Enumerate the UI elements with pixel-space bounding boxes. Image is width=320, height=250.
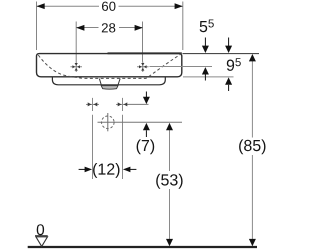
tap hole crosshair right	[137, 62, 149, 72]
dim 9.5 down arrow 2	[228, 38, 230, 47]
drain centre vertical line	[107, 113, 109, 131]
floor line	[28, 246, 257, 248]
dim 28 extension line right	[142, 22, 144, 62]
datum 0 underline	[35, 235, 48, 237]
fixing hole crosshair right	[116, 103, 129, 105]
dim 85 up arrow	[249, 54, 256, 61]
dim 12 arrow left	[79, 168, 85, 170]
tap centre extension line	[150, 66, 213, 68]
fixing hole extension line right (down to dim 12)	[122, 98, 124, 111]
label (7)	[137, 139, 155, 154]
drain dashed circle	[102, 116, 115, 129]
dim 5.5 up arrow	[202, 67, 209, 74]
dim 9.5 up arrow	[225, 77, 232, 84]
dim 28 arrow right	[135, 25, 143, 31]
fixing hole extension line left (down to dim 12)	[92, 98, 94, 111]
dim 12 arrow right	[123, 167, 130, 173]
dim 53 down arrow	[166, 239, 173, 246]
dim 60 label	[102, 2, 116, 11]
drain centre line	[98, 121, 183, 123]
dim 53 up arrow	[166, 123, 173, 130]
basin rim extension line right	[183, 53, 260, 55]
dim 60 extension line left	[36, 2, 38, 51]
basin outline	[37, 54, 182, 77]
label (12)	[93, 163, 119, 178]
dim 28 line	[76, 27, 98, 29]
label (53)	[156, 174, 182, 189]
basin bottom extension line	[183, 76, 234, 78]
datum 0 triangle	[36, 237, 48, 247]
dim 28 extension line left	[75, 22, 77, 62]
dim 7 down arrow	[145, 92, 147, 99]
tap hole crosshair left	[70, 62, 82, 72]
under-bowl outline	[52, 77, 165, 85]
datum 0 label	[37, 224, 44, 235]
dim 60 line	[37, 5, 100, 7]
dim 60 arrow right	[175, 3, 183, 9]
drain boss right dip	[118, 79, 121, 86]
label 5.5	[200, 20, 214, 33]
drain boss left dip	[99, 79, 101, 86]
dim 28 label	[102, 23, 116, 32]
dim 60 extension line right	[182, 2, 184, 51]
dim 7 up arrow	[143, 123, 150, 130]
label (85)	[239, 139, 265, 154]
drain boss trapezoid	[101, 86, 118, 89]
dim 5.5 down arrow 1	[204, 38, 206, 47]
label 9.5	[227, 58, 241, 71]
dim 7 top line	[129, 103, 149, 105]
dim 60 arrow left	[37, 3, 45, 9]
dim 85 line	[251, 55, 253, 138]
fixing hole crosshair left	[86, 103, 99, 105]
dim 28 arrow left	[76, 25, 84, 31]
dim 85 down arrow	[249, 239, 256, 246]
basin tap deck edge	[108, 52, 182, 54]
dim 53 line	[169, 124, 171, 172]
bowl hidden contour (dashed)	[38, 54, 181, 79]
